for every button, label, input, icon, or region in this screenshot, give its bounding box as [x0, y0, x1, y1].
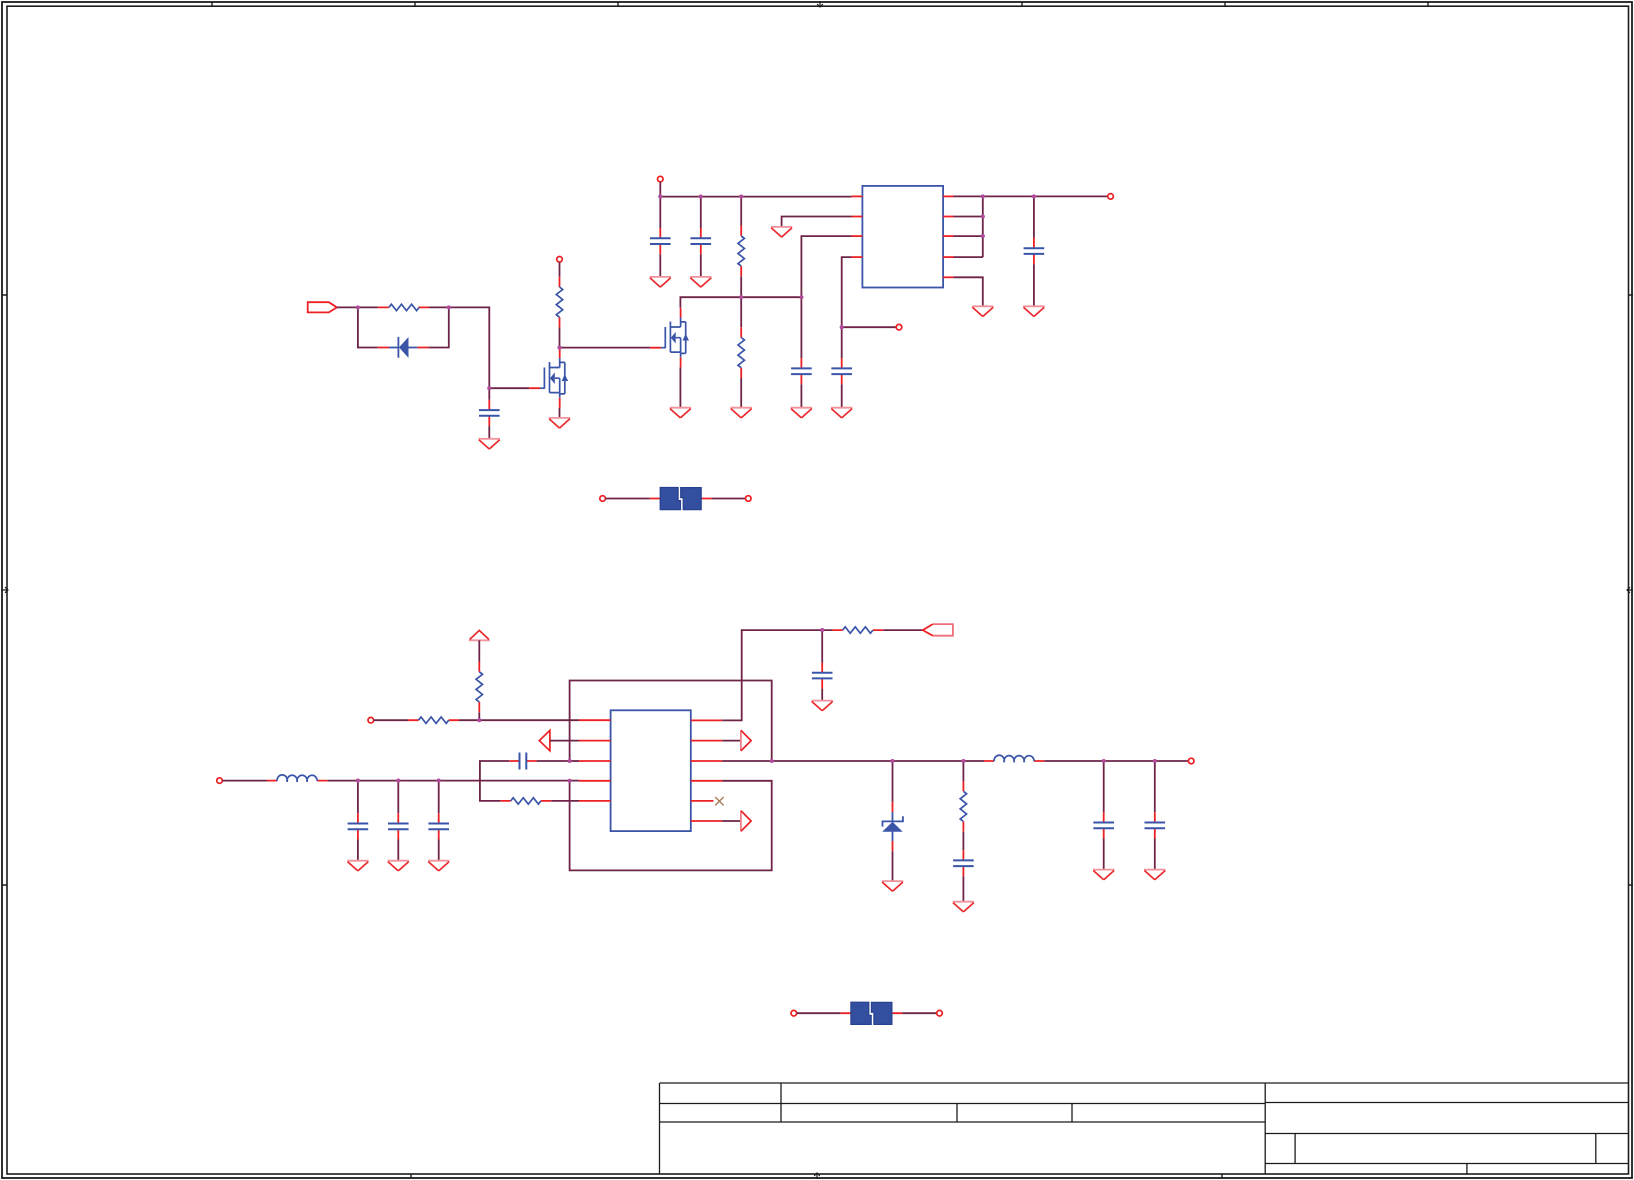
wire Q2 source to ground [679, 367, 681, 407]
wire node P to capacitor C7 [357, 781, 359, 814]
wire capacitor C12 to ground [962, 876, 964, 901]
wire port P1 to node A [337, 306, 358, 308]
wire capacitor C4 to ground [800, 384, 802, 407]
wire capacitor C2 to ground [700, 254, 702, 277]
center arrow mark left border [1, 587, 8, 593]
node AA junction [1153, 759, 1157, 763]
pin 6 U1 [943, 235, 953, 237]
terminal T11 fuse F2 right [937, 1010, 943, 1016]
ground below C4 [791, 408, 812, 418]
resistor R9 [960, 781, 966, 832]
pin 8 U2 [691, 760, 722, 762]
wire pin 11 U2 to port P5 [722, 820, 741, 822]
pin 2 U2 [579, 740, 611, 742]
capacitor C13 [1093, 812, 1114, 838]
pin 1 U1 [852, 195, 863, 197]
ground below C12 [953, 902, 974, 912]
wire node J to capacitor C5 [841, 327, 843, 358]
capacitor C3 [479, 400, 500, 426]
pin 10 U2 [691, 719, 722, 721]
capacitor C11 [812, 662, 833, 688]
pin 4 U1 [852, 256, 863, 258]
ground below C14 [1144, 870, 1165, 880]
resistor R6 [408, 717, 459, 723]
resistor R1 [378, 304, 429, 310]
node B junction [447, 305, 451, 309]
diode D1 [378, 337, 429, 358]
capacitor C8 [388, 813, 409, 839]
capacitor C2 [691, 228, 712, 254]
wire node AA to capacitor C14 [1154, 761, 1156, 812]
node T junction [568, 759, 572, 763]
wire node A to resistor R1 [358, 306, 378, 308]
wire diode D1 to node B [429, 307, 449, 347]
ground below C8 [388, 861, 409, 871]
wire capacitor C13 to ground [1103, 839, 1105, 870]
inductor L2 [984, 755, 1044, 762]
ground at pin 9 U1 [972, 306, 993, 316]
wire capacitor C14 to ground [1154, 839, 1156, 870]
node P junction [356, 779, 360, 783]
wire pin 9 U1 to ground [954, 277, 983, 306]
node G junction [658, 195, 662, 199]
wire capacitor C10 to corner [480, 761, 509, 801]
wire capacitor C8 to ground [397, 840, 399, 861]
wire terminal T2 to rail [659, 182, 661, 197]
resistor R8 [832, 627, 883, 633]
ground below C5 [831, 408, 852, 418]
wire resistor R4 to ground [740, 378, 742, 408]
transistor Q1 [529, 348, 568, 408]
fuse F2 [841, 1002, 903, 1024]
ground at pin 2 U1 [771, 227, 792, 237]
wire terminal T5 to fuse F1 [605, 498, 649, 500]
center arrow mark right border [1627, 587, 1633, 593]
wire node E to node F [741, 296, 801, 298]
pin 8 U1 [943, 195, 953, 197]
pin 9 U2 [691, 740, 722, 742]
wire node V to capacitor C11 [821, 630, 823, 662]
capacitor C4 [791, 358, 812, 384]
ground below R4 [731, 408, 752, 418]
pin 1 U2 [579, 719, 611, 721]
wire power rail [660, 196, 851, 198]
pin 4 U2 [579, 780, 611, 782]
no connect cross pin 6 U2 [715, 797, 723, 805]
pin 3 U2 [579, 760, 611, 762]
pin 2 U1 [852, 216, 863, 218]
wire output bus vertical [954, 196, 983, 257]
zone tick marks top border [212, 2, 1428, 6]
terminal T1 above resistor R2 [557, 257, 563, 263]
ground below Q1 [549, 418, 570, 428]
resistor R2 [556, 277, 562, 328]
node I junction [739, 195, 743, 199]
wire bottom loop [570, 781, 772, 871]
wire resistor R1 to node B [429, 306, 449, 308]
wire zener D2 to ground [892, 851, 894, 881]
wire Q2 drain up and to node E [680, 297, 741, 307]
terminal T2 above rail [658, 176, 664, 182]
pin 5 U2 [579, 800, 611, 802]
capacitor C1 [650, 228, 671, 254]
wire node F to capacitor C4 [800, 297, 802, 358]
wire node Z to capacitor C13 [1103, 761, 1105, 812]
ground below C7 [347, 861, 368, 871]
wire resistor R6 to pin 1 U2 [459, 719, 579, 721]
zone tick marks left border [2, 295, 7, 885]
wire output rail U1 [954, 195, 1109, 197]
fuse F1 [650, 488, 712, 510]
wire resistor R9 to capacitor C12 [962, 832, 964, 850]
pin 11 U2 [691, 820, 722, 822]
node F junction [799, 295, 803, 299]
wire node H to capacitor C2 [700, 197, 702, 228]
IC U2 [611, 710, 691, 831]
center arrow mark top border [817, 1, 823, 7]
wire node E to resistor R4 [740, 297, 742, 327]
IC U1 [862, 186, 943, 288]
wire fuse F1 to terminal T6 [712, 498, 746, 500]
wire power symbol to resistor R5 [478, 640, 480, 661]
zener diode D2 [882, 802, 903, 851]
terminal T8 [368, 717, 374, 723]
resistor R5 [476, 662, 482, 713]
node W junction [770, 759, 774, 763]
wire feedback top loop [570, 681, 772, 762]
terminal T7 input [217, 778, 223, 784]
pin 5 U1 [943, 256, 953, 258]
wire resistor R5 to node S [478, 712, 480, 720]
wire Q1 source to ground [559, 408, 561, 418]
terminal T4 output [1108, 194, 1114, 200]
wire node Y to resistor R9 [962, 761, 964, 781]
wire pin 10 U2 up to node V [722, 630, 832, 720]
resistor R7 feedback [500, 798, 551, 804]
title block left table [660, 1083, 1266, 1174]
pin 7 U1 [943, 216, 953, 218]
wire pin 3 U1 to node F [801, 236, 851, 297]
node C junction [487, 386, 491, 390]
wire terminal T8 to resistor R6 [374, 719, 409, 721]
capacitor C7 [348, 813, 369, 839]
capacitor C6 [1024, 238, 1045, 264]
wire pin 2 U1 to ground [782, 217, 852, 227]
wire node T to capacitor C10 [537, 760, 570, 762]
capacitor C12 [953, 850, 974, 876]
node Q junction [396, 779, 400, 783]
zone tick marks bottom border [411, 1174, 1222, 1178]
node E junction [739, 295, 743, 299]
node X junction [890, 759, 894, 763]
wire resistor R2 to node D [559, 328, 561, 348]
wire node A down to diode D1 [358, 307, 378, 347]
wire node X to zener D2 [892, 761, 894, 802]
port P2 arrow left [539, 730, 550, 750]
port P4 arrow right [741, 730, 751, 751]
node K junction [981, 194, 985, 198]
node V junction [820, 628, 824, 632]
terminal T6 fuse F1 right [746, 496, 752, 502]
ground below D2 [882, 881, 903, 891]
ground below Q2 [670, 408, 691, 418]
resistor R3 [738, 226, 744, 277]
node J junction [840, 325, 844, 329]
power symbol VCC [469, 630, 490, 640]
wire node J to terminal T3 [842, 326, 897, 328]
wire terminal T1 to resistor R2 [559, 262, 561, 277]
port P5 arrow right [741, 811, 751, 832]
wire capacitor C7 to ground [357, 840, 359, 861]
node R junction [437, 779, 441, 783]
title block right table [1265, 1083, 1628, 1174]
capacitor C5 [831, 358, 852, 384]
wire capacitor C11 to ground [821, 689, 823, 701]
wire terminal T10 to fuse F2 [797, 1012, 841, 1014]
wire node R to capacitor C9 [438, 781, 440, 814]
capacitor C14 [1145, 812, 1166, 838]
resistor R4 [738, 327, 744, 378]
ground below C1 [650, 277, 671, 287]
wire node B to gate of Q1 [449, 307, 530, 388]
node M junction [981, 214, 985, 218]
port P1 input [308, 302, 337, 312]
wire node D to gate of Q2 [560, 347, 651, 349]
wire pin 4 U1 to node J [842, 257, 852, 327]
inductor L1 [267, 775, 327, 782]
wire resistor R7 to pin 5 U2 [551, 800, 579, 802]
ground below C9 [428, 861, 449, 871]
node H junction [699, 195, 703, 199]
wire node I to resistor R3 [740, 197, 742, 226]
zone tick marks right border [1629, 295, 1634, 885]
center arrow mark bottom border [814, 1173, 820, 1179]
wire pin 9 U2 to port P4 [722, 740, 741, 742]
wire capacitor C6 to ground [1033, 264, 1035, 306]
wire node T to pin 3 U2 [570, 760, 579, 762]
pin 7 U2 [691, 780, 722, 782]
wire capacitor C9 to ground [438, 840, 440, 861]
ground below C6 [1023, 306, 1044, 316]
ground below C2 [690, 277, 711, 287]
wire resistor R8 to port P3 [883, 629, 923, 631]
node U junction [568, 779, 572, 783]
node Z junction [1102, 759, 1106, 763]
terminal T5 fuse F1 left [600, 496, 606, 502]
node D junction [557, 346, 561, 350]
wire capacitor C1 to ground [659, 254, 661, 277]
wire node C to capacitor C3 [488, 388, 490, 400]
ground below C11 [812, 701, 833, 711]
wire terminal T7 to inductor L1 [222, 780, 267, 782]
wire capacitor C5 to ground [841, 384, 843, 407]
terminal T10 fuse F2 left [791, 1010, 797, 1016]
terminal T3 [896, 324, 902, 330]
wire node L to capacitor C6 [1033, 196, 1035, 238]
node A junction [356, 305, 360, 309]
wire resistor R3 to node E [740, 276, 742, 297]
transistor Q2 [650, 308, 689, 368]
terminal T9 output [1188, 758, 1194, 764]
wire fuse F2 to terminal T11 [902, 1012, 936, 1014]
pin 6 U2 no connect [691, 800, 714, 802]
node S junction [477, 718, 481, 722]
wire pin 8 U2 to output line [722, 760, 1188, 762]
wire node Q to capacitor C8 [397, 781, 399, 814]
node L junction [1032, 194, 1036, 198]
node Y junction [961, 759, 965, 763]
wire capacitor C3 to ground [488, 426, 490, 439]
capacitor C10 feedback [509, 753, 536, 770]
port P3 [923, 624, 953, 636]
wire port P2 to pin 2 U2 [550, 740, 579, 742]
pin 3 U1 [852, 235, 863, 237]
ground below C3 [479, 439, 500, 449]
node N junction [981, 234, 985, 238]
wire node G to capacitor C1 [659, 197, 661, 228]
wire main input line [327, 780, 579, 782]
capacitor C9 [428, 813, 449, 839]
pin 9 U1 [943, 276, 953, 278]
ground below C13 [1093, 870, 1114, 880]
